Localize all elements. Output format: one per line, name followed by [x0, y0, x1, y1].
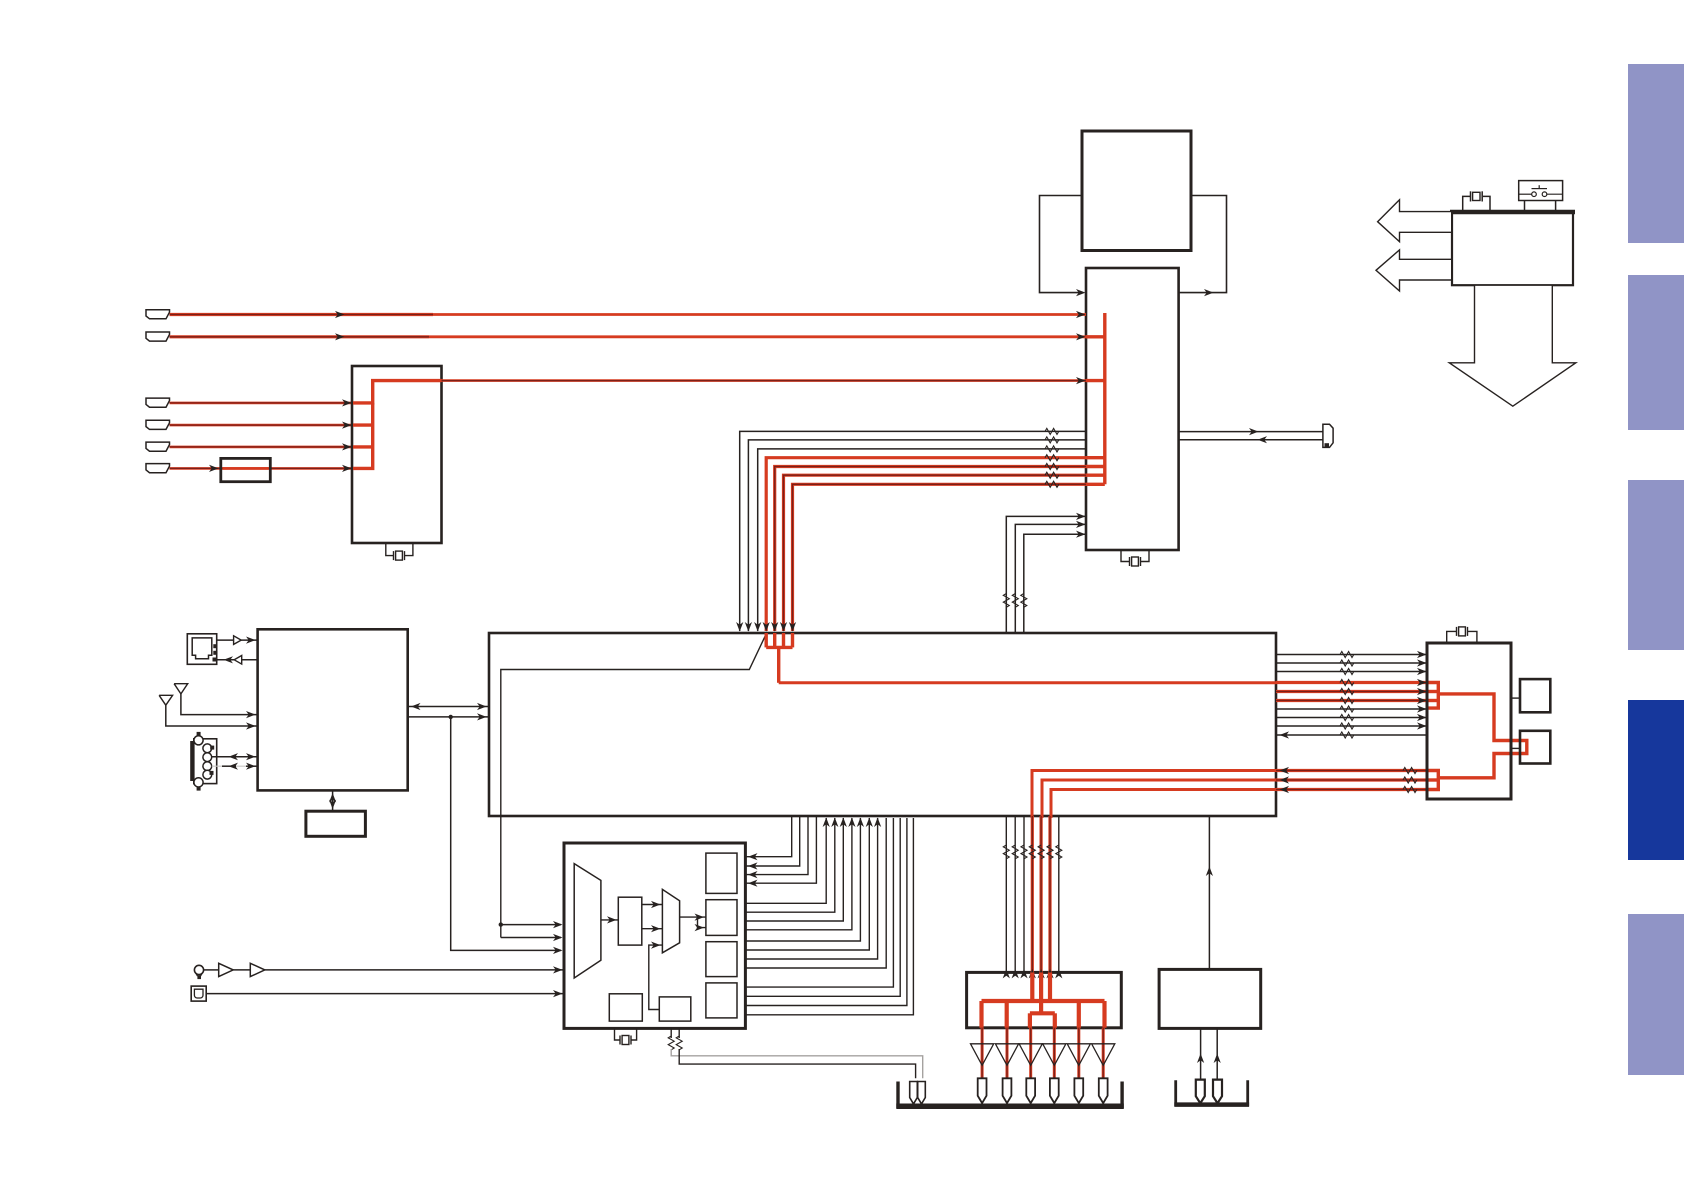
red path inside tuner block — [353, 381, 442, 403]
crystal X3 above dsp block — [1447, 631, 1456, 643]
tuner block — [352, 366, 442, 543]
internal wire trapezoidA to adc — [601, 919, 618, 921]
sram block r2 — [706, 900, 737, 936]
wire KEY3 to tuner block — [170, 446, 353, 449]
red bundle dsp to main IC lower — [1276, 769, 1427, 772]
wire loop servo to mech right — [1179, 196, 1227, 293]
outline arrow left upper — [1378, 200, 1452, 242]
buffer triangle TX — [217, 639, 234, 641]
wire ANT1 to servo block — [170, 313, 434, 316]
bus wire main-to-dsp 9 — [1276, 725, 1427, 727]
mux trapezoid A — [574, 864, 601, 978]
wire ANT2 to servo block — [170, 335, 430, 338]
outline arrow down big — [1449, 285, 1576, 406]
bus wire main-to-dsp 7 — [1276, 708, 1427, 710]
connector tag KEY1 — [146, 398, 170, 407]
connector tag CD (vertical) — [1323, 424, 1333, 447]
speaker line 3 — [1029, 1028, 1032, 1079]
wire DIN pair 2 — [212, 765, 258, 767]
wire KEY4 through filter to tuner block — [170, 467, 353, 470]
bus line inside main IC — [501, 634, 767, 938]
antenna ANT small — [174, 684, 188, 694]
main IC block — [489, 633, 1276, 816]
bus wire main-to-dsp 5 — [1276, 690, 1427, 693]
connector pin 2 — [1003, 1078, 1012, 1103]
connector tag ANT1 — [146, 310, 170, 319]
wire switch to power block — [1524, 201, 1526, 213]
connector tag ANT2 — [146, 332, 170, 341]
internal wire adc to trapezoidB 1 — [642, 904, 663, 906]
sram block r4 — [706, 983, 737, 1018]
bus wire servo-to-main 1 — [740, 431, 1086, 631]
index tab 5 — [1628, 914, 1684, 1075]
antenna ANT large — [159, 695, 173, 705]
control wire main-to-servo 3 — [1024, 534, 1085, 633]
speaker line 4 — [1053, 1028, 1056, 1079]
wire tuner out to servo block — [442, 379, 1087, 382]
bus wire servo-to-main 3 — [758, 449, 1086, 631]
bus wire main-to-dsp 6 — [1276, 699, 1427, 702]
power pins wires — [1200, 1028, 1202, 1079]
output amp triangle 5 — [1067, 1044, 1090, 1066]
wire aux to selector — [206, 993, 564, 995]
bus wire main-to-dsp 4 — [1276, 681, 1427, 684]
speaker line 5 — [1077, 1028, 1080, 1079]
connector pin 3 — [1026, 1078, 1035, 1103]
connector pin 5 — [1074, 1078, 1083, 1103]
power connector shell — [1176, 1080, 1248, 1104]
internal wire osc to trapezoidB — [649, 945, 663, 1009]
power block — [1159, 969, 1261, 1028]
internal wire adc to trapezoidB 2 — [642, 928, 663, 930]
output amp triangle 4 — [1043, 1044, 1066, 1066]
crystal X2 under servo block — [1121, 550, 1129, 562]
memory block 2 — [1520, 731, 1550, 764]
bus wire main-to-dsp 3 — [1276, 671, 1427, 673]
red comb inside main IC — [765, 633, 768, 647]
wire selector to rear connector 1 — [671, 1049, 923, 1078]
red feed inside servo block — [1103, 313, 1106, 484]
wire dsp to memory 2 — [1511, 747, 1520, 749]
wire branch down to selector — [451, 717, 561, 951]
power amp block — [967, 972, 1122, 1027]
index tab 1 — [1628, 64, 1684, 243]
red fanout inside power amp — [1030, 972, 1034, 1001]
wire DIN pair 1 — [212, 756, 258, 758]
crystal X1 under tuner block — [386, 543, 393, 556]
power connector pin 1 — [1196, 1080, 1205, 1104]
connector tag KEY3 — [146, 442, 170, 451]
connector tag KEY2 — [146, 420, 170, 429]
mic amp triangle 1 — [204, 969, 219, 971]
output amp triangle 2 — [995, 1044, 1018, 1066]
rear connector shell — [898, 1082, 1122, 1107]
wire selector to rear connector 2 — [679, 1049, 915, 1078]
bus wire servo-to-main 7 — [793, 484, 1087, 631]
fuse F1 — [1471, 191, 1483, 201]
speaker line 6 — [1102, 1028, 1105, 1079]
wire KEY1 to tuner block — [170, 402, 353, 405]
index tab 3 — [1628, 480, 1684, 650]
mechanism block (top) — [1082, 131, 1191, 251]
wires main IC down to sram r1 — [745, 816, 791, 857]
speaker line 1 — [981, 1028, 984, 1079]
bus wire main-to-dsp 2 — [1276, 662, 1427, 664]
connector pin 4 — [1050, 1078, 1059, 1103]
connector pin 6 — [1099, 1078, 1108, 1103]
output amp triangle 6 — [1092, 1044, 1115, 1066]
outline arrow left lower — [1376, 250, 1452, 291]
wire mic to selector — [265, 969, 564, 971]
wire power to main IC — [1208, 816, 1210, 969]
output amp triangle 3 — [1019, 1044, 1042, 1066]
servo block (tall) — [1086, 268, 1179, 550]
output amp triangle 1 — [971, 1044, 994, 1066]
resistor pair under selector — [670, 1028, 672, 1038]
DIN connector — [192, 732, 217, 791]
rear connector pins left pair — [910, 1082, 918, 1104]
bus wire servo-to-main 2 — [748, 440, 1086, 631]
mic amp triangle 2 — [233, 969, 250, 971]
wire bluetooth to main IC A — [408, 706, 489, 708]
bus wire main-to-dsp 10 — [1276, 734, 1427, 736]
wire dsp to memory 1 — [1511, 697, 1520, 699]
connector pin 1 — [978, 1078, 987, 1103]
index tab 4 (active) — [1628, 700, 1684, 860]
power connector pin 2 — [1213, 1080, 1222, 1104]
wires sram r2 r3 r4 up to main IC — [745, 818, 826, 903]
control wire main-to-servo 2 — [1015, 524, 1085, 633]
filter block on KEY4 line — [221, 458, 270, 481]
wire fuse loop on power block — [1463, 196, 1470, 212]
aux jack symbol — [191, 986, 206, 1001]
pll block b1 — [609, 994, 642, 1021]
wire loop mech to servo left — [1040, 196, 1084, 293]
speaker line 2 — [1006, 1028, 1009, 1079]
mux trapezoid B — [662, 889, 679, 952]
wires main IC to power amp — [1005, 816, 1007, 972]
bus wire main-to-dsp 8 — [1276, 717, 1427, 719]
wire bluetooth to main IC B with branch — [408, 716, 489, 718]
switch S1 contacts — [1519, 185, 1563, 196]
eeprom block under bluetooth — [332, 790, 334, 811]
red trunk inside main IC — [779, 681, 1276, 684]
mic symbol — [194, 965, 203, 979]
sram block r3 — [706, 942, 737, 977]
wire servo to cd connector pair — [1179, 431, 1323, 433]
bus wire main-to-dsp 1 — [1276, 654, 1427, 656]
osc block b2 — [659, 997, 691, 1021]
memory block 1 — [1520, 679, 1550, 712]
switch box — [1519, 181, 1563, 201]
bluetooth module block — [258, 629, 408, 790]
buffer triangle RX — [242, 659, 258, 661]
control wire main-to-servo 1 — [1006, 516, 1085, 633]
red path inside dsp block — [1427, 683, 1438, 709]
index tab 2 — [1628, 275, 1684, 430]
red return paths inside main IC — [1032, 771, 1276, 819]
connector tag KEY4 — [146, 464, 170, 473]
adc block small — [618, 897, 642, 945]
wire KEY2 to tuner block — [170, 424, 353, 427]
bus wire servo-to-main 4 — [766, 458, 1086, 631]
sram block r1 — [706, 853, 737, 893]
dsp block — [1427, 643, 1511, 799]
wire bus to selector taps — [499, 922, 503, 926]
internal wire trapezoidB to sram r2 — [680, 916, 706, 918]
RJ connector jack — [187, 634, 217, 665]
bus wire servo-to-main 6 — [784, 475, 1087, 631]
selector block — [564, 843, 745, 1028]
power supply block — [1452, 212, 1573, 285]
bus wire servo-to-main 5 — [775, 467, 1086, 632]
crystal X4 under selector — [615, 1028, 621, 1040]
